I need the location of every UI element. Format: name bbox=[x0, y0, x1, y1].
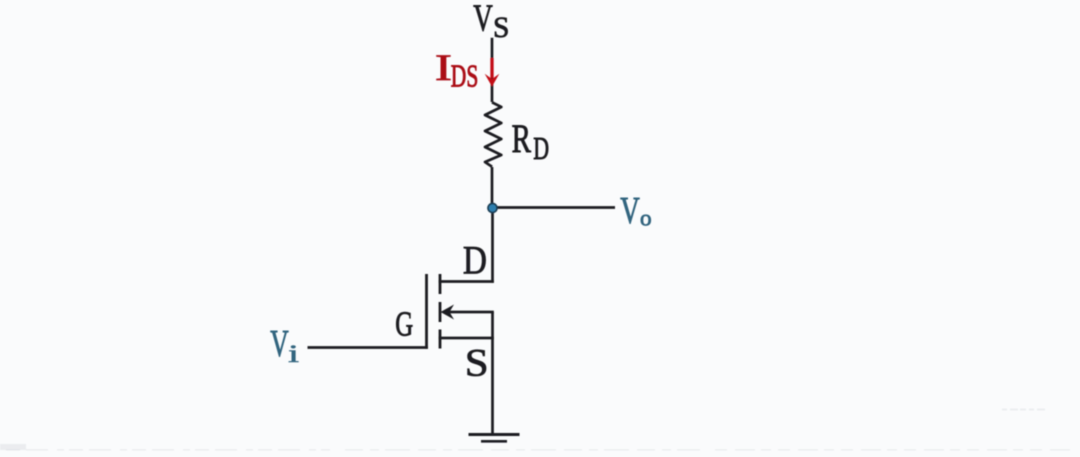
svg-text:V: V bbox=[473, 0, 493, 40]
MOSFET Q1: channel top segment (drain) bbox=[439, 274, 442, 294]
source horizontal lead bbox=[439, 337, 494, 340]
label Vi (blue) bbox=[270, 323, 299, 368]
svg-text:I: I bbox=[435, 47, 452, 88]
svg-text:S: S bbox=[465, 340, 489, 384]
svg-text:o: o bbox=[640, 205, 652, 231]
svg-text:D: D bbox=[463, 238, 487, 282]
resistor RD zigzag bbox=[485, 102, 501, 167]
svg-text:R: R bbox=[512, 116, 532, 161]
svg-text:S: S bbox=[493, 11, 509, 44]
gate wire from Vi bbox=[308, 346, 428, 349]
svg-text:V: V bbox=[270, 323, 289, 365]
label IDS (red) bbox=[435, 47, 478, 94]
label VS (supply) bbox=[473, 0, 509, 44]
node dot (blue junction) bbox=[488, 204, 497, 213]
wire VS to resistor bbox=[491, 38, 494, 102]
svg-text:G: G bbox=[395, 304, 413, 343]
faint cropped-text artifact along bottom edge bbox=[6, 449, 1074, 451]
svg-text:DS: DS bbox=[451, 58, 478, 93]
MOSFET Q1: gate bar bbox=[425, 274, 428, 349]
body line with arrow (pointing to gate) bbox=[441, 305, 494, 320]
source wire down to ground bbox=[491, 338, 494, 435]
label Vo (blue) bbox=[620, 191, 651, 232]
svg-text:D: D bbox=[533, 131, 549, 166]
wire node to drain bbox=[491, 208, 494, 283]
MOSFET Q1: channel bottom segment (source) bbox=[439, 330, 442, 349]
body-source tie vertical bbox=[491, 312, 494, 338]
faint mark bottom-left corner bbox=[0, 444, 26, 450]
current arrow IDS (red) bbox=[485, 58, 500, 87]
label RD bbox=[512, 116, 549, 165]
MOSFET Q1: channel middle segment (body) bbox=[439, 302, 442, 322]
ground symbol bbox=[469, 435, 520, 442]
wire node to Vo bbox=[492, 206, 615, 209]
wire resistor to node bbox=[491, 167, 494, 208]
faint watermark trace bbox=[1002, 409, 1046, 411]
drain horizontal lead bbox=[439, 280, 494, 283]
svg-text:V: V bbox=[620, 191, 640, 232]
svg-text:i: i bbox=[288, 340, 299, 368]
